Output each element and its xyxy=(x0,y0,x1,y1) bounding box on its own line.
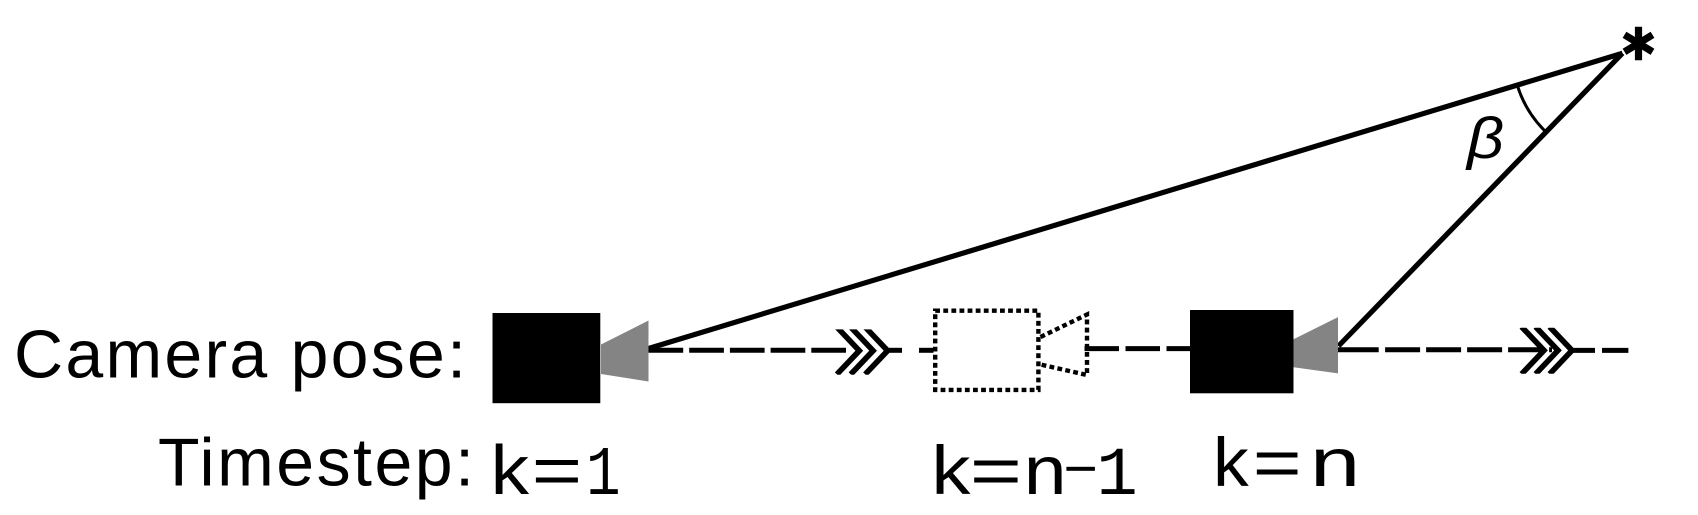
svg-text:β: β xyxy=(1465,106,1504,171)
svg-text:=: = xyxy=(969,437,1023,515)
svg-text:k: k xyxy=(487,437,533,515)
svg-text:k: k xyxy=(928,437,975,515)
angle arc beta xyxy=(1517,85,1546,132)
wire after chevron2 xyxy=(1572,348,1595,353)
landmark asterisk xyxy=(1625,27,1653,61)
svg-text:Timestep:: Timestep: xyxy=(158,425,474,501)
svg-text:Camera pose:: Camera pose: xyxy=(14,317,466,393)
dashed trajectory segment k=1 to chevron xyxy=(649,348,850,353)
label k=n-1 xyxy=(928,437,1138,515)
svg-text:k: k xyxy=(1210,429,1253,507)
camera k=n body xyxy=(1190,310,1294,393)
dashed trajectory segment after k=n xyxy=(1338,347,1379,352)
dashed trajectory segment k=n-1 to k=n xyxy=(1085,346,1191,351)
label k=n xyxy=(1210,429,1363,507)
svg-text:=: = xyxy=(531,437,583,515)
camera k=n-1 lens cone (dotted) xyxy=(1041,315,1088,376)
camera k=1 lens cone xyxy=(601,321,649,382)
camera k=n lens cone xyxy=(1294,317,1339,373)
svg-text:1: 1 xyxy=(586,437,621,515)
svg-text:n: n xyxy=(1308,429,1362,507)
sight line from camera k=1 to landmark xyxy=(649,53,1623,348)
sight line from camera k=n to landmark xyxy=(1339,53,1623,346)
camera k=1 body xyxy=(493,313,601,403)
svg-text:n: n xyxy=(1022,437,1068,515)
camera k=n-1 body (dotted) xyxy=(935,311,1038,390)
label k=1 xyxy=(487,437,621,515)
wire chevron1 to camera k=n-1 xyxy=(888,348,902,353)
svg-text:=: = xyxy=(1252,429,1302,507)
svg-text:1: 1 xyxy=(1096,437,1138,515)
